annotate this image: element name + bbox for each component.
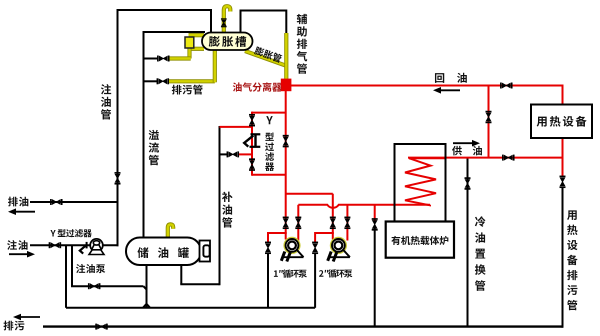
wire: overflow pipe top run xyxy=(144,31,206,33)
wire: heat-equipment blow-down pipe lower black part xyxy=(562,187,564,328)
wire: pump2 drain lower black part xyxy=(314,253,316,308)
label: 1" circulation pump xyxy=(274,270,278,277)
pipe red: heat equipment outlet drop to supply header xyxy=(562,138,564,159)
pipe red: furnace drain upper part xyxy=(374,205,376,221)
pipe red: pump2 drain branch xyxy=(315,232,334,234)
pipe yellow: gauge down-leg xyxy=(187,46,191,59)
valve: pump2 discharge valve xyxy=(344,217,350,228)
label: youji rezaiti lu (organic heat carrier furnace) xyxy=(391,236,400,245)
label: yiliuguan (overflow pipe) xyxy=(149,130,159,140)
valve: pump1 suction valve xyxy=(283,217,289,228)
pump P1: feet xyxy=(281,250,303,262)
pipe red: make-up valved stub red part xyxy=(238,153,252,155)
wire: tank outlet V-merge into header B xyxy=(143,304,150,308)
wire: drop from top run into expansion tank top xyxy=(210,9,212,34)
pipe red: filter branch top xyxy=(252,112,286,114)
wire: storage tank bottom outlet down to header B xyxy=(146,264,148,308)
label: Y-type filter small xyxy=(50,230,55,237)
wire: pump1 drain lower black part xyxy=(267,253,269,308)
valve: injection oil valve xyxy=(50,242,61,248)
wire: expansion tank drain 1 black stub xyxy=(144,58,159,60)
valve: filter outlet valve xyxy=(249,159,255,170)
label: 2" circulation pump xyxy=(319,270,323,277)
valve: expansion tank drain valve xyxy=(157,78,168,84)
box: heat-using equipment (yongreshebei) xyxy=(531,105,592,139)
valve: make-up stub valve xyxy=(227,151,238,157)
label: paiwuguan (tank drain pipe) xyxy=(172,85,182,95)
wire: tap down to drain line A xyxy=(71,245,73,286)
component: small Y-type filter on injection line xyxy=(86,242,88,249)
label: chuyouguan (storage tank) xyxy=(137,247,148,258)
node: oil-gas separator (red square) xyxy=(281,79,292,92)
pipe red: make-up tie-in upper xyxy=(220,126,253,128)
pump P2: circulation pump 2 body xyxy=(331,238,346,253)
label: gongyou (supply oil) xyxy=(452,146,462,156)
pipe red: suction branch to pump 2 xyxy=(286,193,333,195)
pipe red: furnace heating coil zig-zag xyxy=(405,158,436,205)
component: main Y-type filter on pump suction xyxy=(251,133,261,135)
pipe red: main drop from separator through filter bypass to pump 1 xyxy=(285,90,287,240)
wire: injection oil (zhuyou) line up the column xyxy=(30,244,119,246)
label: yongreshebei (heat equipment) xyxy=(537,117,547,127)
wire: furnace drain black lower part xyxy=(374,228,376,327)
label: pengzhangguan (expansion pipe, rotated) xyxy=(254,46,283,63)
wire: make-up valved stub black part xyxy=(220,153,228,155)
valve: discharge oil valve xyxy=(51,199,62,205)
pipe yellow: level gauge top link xyxy=(189,33,205,37)
wire: make-up oil pipe (buyouguan) column xyxy=(219,126,221,285)
valve: bypass valve xyxy=(486,112,492,123)
pump P1: circulation pump 1 body xyxy=(284,238,299,253)
box: organic heat carrier furnace label box xyxy=(386,222,454,258)
valve: return header valve xyxy=(501,83,512,89)
wire: expansion tank drain 2 black stub xyxy=(144,80,158,82)
wire: tap down to transfer header B xyxy=(65,245,67,308)
valve: filter bypass valve xyxy=(283,136,289,147)
wire: blow-down header C (paiwu) xyxy=(43,325,563,327)
pipe yellow: expansion pipe diagonal to separator xyxy=(245,51,286,66)
pipe red: heat equipment inlet drop xyxy=(562,85,564,106)
component: level gauge on expansion tank xyxy=(185,37,194,48)
valve: expansion tank vent valve xyxy=(221,19,227,27)
wire: transfer header B xyxy=(66,307,315,309)
label: youqifenliqi (oil-gas separator) xyxy=(233,82,242,91)
vessel: oil storage tank (chuyouguan) xyxy=(126,238,201,266)
pipe red: filter branch bottom xyxy=(252,174,286,176)
component: storage tank end fitting xyxy=(200,241,211,262)
wire: discharge oil (paiyou) line xyxy=(30,201,118,203)
arrow: injection oil flow right xyxy=(9,253,27,255)
pipe red: heat equipment blow-down upper part xyxy=(562,158,564,178)
pump P2: feet xyxy=(328,250,350,262)
pipe yellow: level gauge bottom link xyxy=(189,47,205,51)
wire: tank outlet to make-up pipe column xyxy=(180,283,219,285)
pipe red: pump 2 discharge riser xyxy=(346,205,348,241)
valve: drain line A valve xyxy=(89,283,100,289)
label: zhuyoubeng (injection pump) xyxy=(76,264,85,273)
label: paiyou (discharge oil) xyxy=(8,197,18,207)
box: furnace coil chamber xyxy=(395,144,446,222)
pipe red: bypass between return and supply headers xyxy=(488,86,490,158)
label: yongreshebei paiwuguan (equipment blow-down pipe) xyxy=(567,210,577,220)
pipe red: Y-filter column xyxy=(251,112,253,176)
label: buyouguan (make-up pipe) xyxy=(222,192,233,202)
wire: drain line A horizontal xyxy=(71,285,143,287)
label: lengyou zhihuanguan (cold oil displacement pipe) xyxy=(475,216,486,227)
valve: furnace drain valve xyxy=(372,219,378,230)
pipe red: return header from separator to heat equipment xyxy=(291,85,563,87)
wire: line A 45-degree merge into tank outlet xyxy=(143,286,146,290)
pipe yellow: aux vent lower part into separator xyxy=(284,33,288,80)
valve: blow-down header valve xyxy=(96,324,107,330)
wire: overflow pipe (yiliuguan) column down to storage tank xyxy=(143,31,145,239)
pipe yellow: storage tank vent hook xyxy=(168,224,173,239)
valve: supply header valve xyxy=(503,155,514,161)
label: paiwu (blow-down) xyxy=(4,321,14,331)
pipe red: supply header from furnace to heat equipment xyxy=(408,157,563,159)
pipe red: pump1 drain branch xyxy=(268,232,287,234)
arrow: return oil flow left xyxy=(441,89,460,91)
pipe yellow: tank drain run xyxy=(169,79,215,83)
pipe red: discharge header with crossover dip to furnace xyxy=(298,205,430,208)
pipe yellow: expansion tank vent hook xyxy=(224,6,231,33)
valve: heat equipment blow-down valve xyxy=(560,176,566,187)
wire: oil-injection pipe left column (zhuyouguan) xyxy=(117,9,119,246)
vessel: expansion tank (pengzhangcao) xyxy=(202,33,253,51)
wire: top run of injection pipe to expansion tank xyxy=(117,9,213,11)
pipe red: coil top outlet run xyxy=(409,157,446,159)
wire: auxiliary vent pipe up from expansion tank xyxy=(240,11,242,34)
valve: pump1 discharge valve xyxy=(295,217,301,228)
label: zhuyou (injection oil) xyxy=(7,240,17,250)
valve: injection column valve xyxy=(115,173,121,184)
arrow: supply oil flow right xyxy=(453,142,472,144)
label: fuzhupaiqiguan (auxiliary vent pipe) xyxy=(297,14,307,24)
valve: cold-oil line valve xyxy=(465,178,471,189)
valve: filter inlet valve xyxy=(249,115,255,126)
label: Y-type filter vertical xyxy=(266,116,273,124)
wire: storage tank second outlet xyxy=(180,264,182,284)
pipe red: pump 1 discharge riser xyxy=(297,205,299,241)
label: huiyou (return oil) xyxy=(435,73,444,83)
valve: pump2 suction valve xyxy=(330,217,336,228)
pump P3: oil injection pump (zhuyoubeng) xyxy=(90,239,103,252)
valve: pump1 drain valve xyxy=(265,242,271,253)
valve: tank gauge drain valve xyxy=(158,56,169,62)
wire: cold-oil displacement pipe (lengyou zhihuanguan) xyxy=(467,158,469,327)
label: pengzhangcao (expansion tank) xyxy=(209,36,220,47)
valve: pump2 drain valve xyxy=(312,242,318,253)
arrow: blow-down flow left xyxy=(21,316,40,318)
label: zhuyouguan (injection pipe) xyxy=(101,84,111,94)
arrow: discharge oil flow left xyxy=(16,211,35,213)
